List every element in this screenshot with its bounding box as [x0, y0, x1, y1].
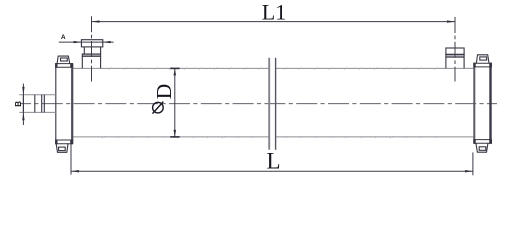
vessel shell bottom wall	[73, 136, 475, 138]
weld tick marks on shell walls	[102, 67, 438, 138]
D top arrowhead	[170, 67, 179, 69]
dimension D (diameter) line	[174, 68, 176, 136]
dimension L1 line	[92, 21, 456, 23]
A port vertical centerline	[91, 16, 93, 81]
svg-text:A: A	[61, 34, 66, 41]
L1 left arrowhead	[92, 20, 100, 22]
A right arrowhead	[103, 41, 111, 43]
base	[82, 56, 100, 68]
bottom face band	[55, 139, 73, 141]
top port on right	[446, 48, 464, 68]
B bottom arrowhead	[22, 112, 24, 120]
L1 right arrowhead	[447, 20, 455, 22]
horizontal centerline of vessel	[20, 103, 497, 105]
flared top tube	[81, 40, 102, 47]
dimension A lines	[59, 41, 114, 43]
dimension B line	[22, 84, 24, 126]
right port vertical centerline	[454, 17, 456, 82]
vessel shell top wall	[73, 67, 475, 69]
bottom face band	[473, 139, 492, 141]
groove band	[82, 54, 100, 56]
left flange top clamp tab	[57, 56, 70, 63]
right flange bottom clamp tab	[476, 143, 488, 152]
right end flange body	[473, 63, 492, 144]
svg-text:L: L	[266, 148, 280, 173]
top feed port on left (A port)	[81, 40, 102, 69]
dimension L line	[71, 170, 473, 172]
D bottom arrowhead	[170, 136, 179, 138]
left side feed port (B port)	[19, 95, 56, 113]
top face band	[55, 63, 73, 65]
neck	[84, 47, 100, 54]
svg-text:D: D	[152, 84, 176, 100]
left end flange body	[55, 63, 73, 144]
L right extension line	[472, 152, 474, 175]
svg-text:B: B	[14, 101, 23, 107]
svg-text:L1: L1	[262, 0, 286, 24]
top face band	[473, 62, 492, 64]
diameter circle symbol	[153, 102, 164, 114]
L left arrowhead	[71, 170, 79, 172]
L left extension line	[70, 144, 72, 175]
L right arrowhead	[465, 170, 473, 172]
right flange top clamp tab	[476, 55, 489, 63]
mid-span interconnector coupling	[269, 58, 275, 150]
B top arrowhead	[22, 87, 24, 95]
A left arrowhead	[74, 41, 82, 43]
left flange bottom clamp tab	[56, 144, 68, 152]
